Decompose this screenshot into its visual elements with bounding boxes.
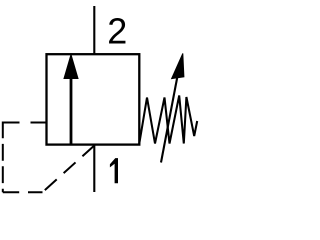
adjustment arrowhead: [172, 53, 184, 78]
pilot line: diagonal dashed segment to port 1 junction: [43, 146, 95, 193]
wire port 1 (bottom line): [93, 145, 95, 192]
svg-text:2: 2: [107, 10, 127, 51]
pilot line: top horizontal dashed segment: [3, 122, 47, 124]
flow path arrow shaft (inside valve): [70, 74, 73, 145]
adjustment arrow shaft (through spring): [161, 77, 177, 163]
pilot line: bottom horizontal dashed segment: [3, 191, 43, 193]
port label 1: [110, 158, 118, 183]
spring (adjustable, right side): [139, 96, 197, 144]
flow path arrowhead: [64, 55, 78, 79]
valve body U1 (square): [47, 54, 140, 144]
pilot line: left vertical dashed segment: [2, 122, 4, 193]
wire port 2 (top line): [93, 6, 95, 54]
